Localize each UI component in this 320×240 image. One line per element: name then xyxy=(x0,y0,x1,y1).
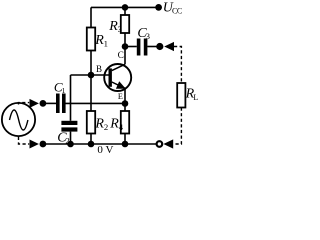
wire base (node to transistor base bar) xyxy=(71,74,109,76)
wire collector vertical xyxy=(124,47,126,65)
capacitor C3 xyxy=(137,39,148,56)
capacitor C1 xyxy=(56,94,66,114)
svg-text:C: C xyxy=(118,51,124,61)
wire ground rail xyxy=(43,143,159,145)
node top rail junction dot xyxy=(122,4,129,11)
wire emitter vertical to E node xyxy=(124,88,126,103)
transistor emitter arrowhead xyxy=(116,81,126,89)
dashed source top lead xyxy=(19,103,30,105)
dashed source bottom lead xyxy=(19,137,30,144)
resistor R3 xyxy=(121,15,129,33)
arrow input top xyxy=(30,99,39,108)
svg-text:CC: CC xyxy=(172,6,182,15)
wire R3 bottom to collector node xyxy=(124,33,126,47)
node emitter junction dot xyxy=(122,100,129,107)
wire R2 top lead from base node xyxy=(90,75,92,111)
node base junction dot xyxy=(88,72,95,79)
svg-text:R: R xyxy=(94,117,104,132)
svg-text:3: 3 xyxy=(118,24,122,34)
svg-text:1: 1 xyxy=(104,38,108,48)
svg-text:E: E xyxy=(118,92,123,101)
wire base corner down to C2 xyxy=(70,75,72,121)
svg-text:0 V: 0 V xyxy=(97,144,113,156)
resistor R1 xyxy=(87,28,95,51)
arrow output top xyxy=(164,42,174,51)
wire E node to R4 xyxy=(124,104,126,112)
dashed RL to output bottom xyxy=(173,108,181,145)
wire collector node to C3 xyxy=(125,46,137,48)
wire left column top (rail corner down to R1) xyxy=(90,7,92,27)
wire C2 to ground rail xyxy=(70,132,72,144)
svg-text:2: 2 xyxy=(65,135,69,145)
resistor RL xyxy=(177,83,185,108)
node Ucc terminal dot xyxy=(155,4,162,11)
node C2 ground dot xyxy=(67,141,74,148)
source sine wave xyxy=(10,110,28,130)
wire R2 bottom lead xyxy=(90,134,92,145)
svg-text:3: 3 xyxy=(146,31,150,41)
node output top dot xyxy=(156,43,163,50)
node collector junction dot xyxy=(122,43,129,50)
wire R4 bottom lead xyxy=(124,134,126,145)
wire C3 to output dot xyxy=(147,46,159,48)
wire R1 bottom to base node xyxy=(90,51,92,76)
transistor Q1 circle xyxy=(104,64,131,91)
wire top rail xyxy=(91,6,159,8)
node input bottom dot xyxy=(40,141,47,148)
svg-text:1: 1 xyxy=(62,86,66,95)
node R2 ground dot xyxy=(88,141,95,148)
svg-text:2: 2 xyxy=(104,122,108,132)
dashed output top to RL xyxy=(174,47,181,84)
capacitor C2 xyxy=(61,121,77,132)
svg-text:4: 4 xyxy=(119,122,124,132)
arrow output bottom xyxy=(163,139,173,148)
arrow input bottom xyxy=(30,140,39,149)
wire input top (dot to C1) xyxy=(43,102,56,104)
source circle xyxy=(2,103,35,136)
wire C1 to emitter node xyxy=(66,102,126,104)
svg-text:L: L xyxy=(193,93,198,102)
transistor base bar xyxy=(109,68,112,86)
node R4 ground dot xyxy=(122,141,129,148)
node output bottom ring dot xyxy=(157,141,163,147)
wire R3 top lead xyxy=(124,7,126,15)
resistor R4 xyxy=(121,111,129,134)
resistor R2 xyxy=(87,111,95,134)
transistor emitter diagonal xyxy=(112,82,125,88)
node input top dot xyxy=(40,100,47,107)
transistor collector diagonal xyxy=(112,64,125,70)
svg-text:B: B xyxy=(96,64,102,74)
